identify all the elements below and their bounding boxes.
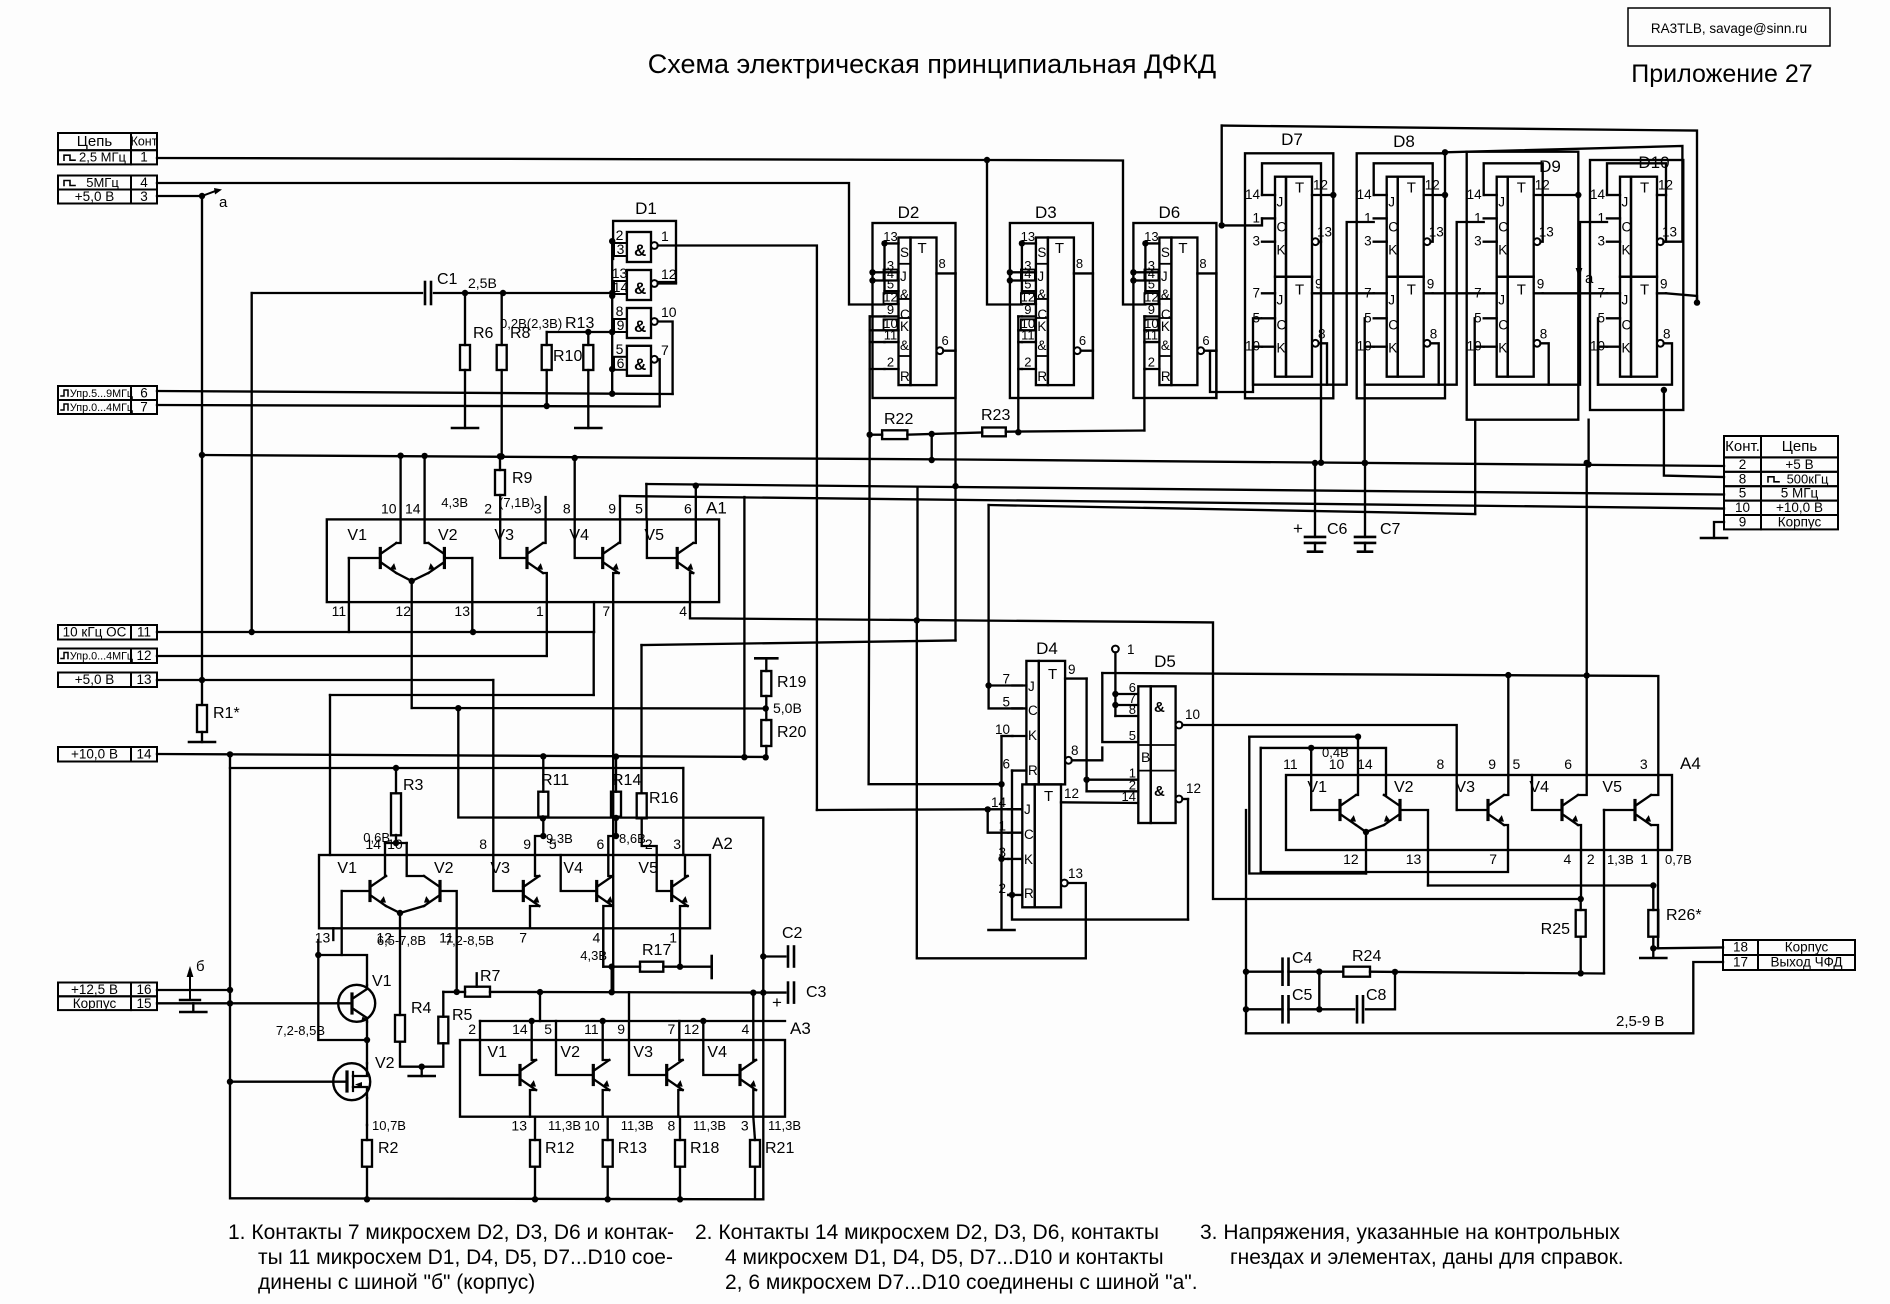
svg-text:13: 13: [136, 672, 151, 687]
wire D5 out12 stub: [1182, 798, 1188, 800]
node D1 pin2: [609, 238, 615, 244]
wire D6 K stub: [1144, 368, 1145, 370]
svg-text:C: C: [1498, 318, 1508, 333]
wire R6 top: [464, 293, 466, 345]
IC D9 inner loop out13-J14: [1484, 163, 1543, 241]
IC D2 cell divider: [899, 355, 911, 357]
IC D6 pin 10: [1145, 329, 1159, 331]
svg-text:18: 18: [1733, 940, 1748, 955]
svg-text:D7: D7: [1281, 130, 1303, 149]
wire A1 pin12 down: [411, 581, 413, 708]
node D5 p6: [1112, 691, 1118, 697]
node конт15 x230: [227, 1000, 233, 1006]
wire конт15: [157, 1003, 193, 1010]
resistor R13: [603, 1140, 613, 1167]
svg-text:Приложение 27: Приложение 27: [1631, 60, 1812, 88]
wire R20 bottom: [765, 746, 767, 757]
node A4 emitters: [1363, 829, 1369, 835]
wire 5МГц branch x917: [916, 487, 918, 620]
wire R25 bottom: [1580, 937, 1582, 974]
svg-text:4: 4: [679, 603, 687, 619]
IC D9 upper pin 1: [1484, 217, 1497, 219]
node rail R11: [540, 753, 546, 759]
node D6 top corner: [1219, 222, 1225, 228]
svg-text:Корпус: Корпус: [1785, 940, 1829, 955]
wire R11 bottom: [535, 817, 543, 855]
node C7 on bus: [1362, 460, 1368, 466]
wire +5 drop to A4 pin6: [1586, 463, 1588, 775]
transistor A2.V1: [368, 882, 371, 901]
svg-text:A2: A2: [712, 834, 733, 853]
connector rows 6/7: [58, 386, 157, 400]
wire 5,0В line: [412, 707, 766, 710]
node wrapA pin10: [1355, 734, 1361, 740]
IC D10 lower pin strip: [1620, 277, 1631, 377]
wire C5 left: [1246, 1008, 1283, 1010]
wire A2.V5 collector: [685, 855, 688, 876]
wire A3.V2 collector: [603, 1040, 610, 1060]
svg-text:6: 6: [1564, 756, 1572, 772]
svg-text:5: 5: [1129, 728, 1136, 743]
IC D5 pin1 terminal: [1112, 646, 1119, 653]
wire A4.V4 emitter: [1578, 825, 1581, 850]
node R8 top: [500, 290, 506, 296]
wire D4 feed bus: [989, 505, 1476, 514]
wire D10 out9 to top bus: [1666, 293, 1697, 302]
wire D2 out8 drop: [954, 273, 956, 640]
wire A4 wrapB: [1261, 748, 1386, 775]
IC D8 lower T box: [1398, 277, 1424, 377]
svg-text:R26*: R26*: [1666, 907, 1702, 924]
node конт6/D1 bus: [609, 391, 615, 397]
node x917 on pin4 line: [914, 617, 920, 623]
svg-text:K: K: [1277, 341, 1286, 356]
IC D3 cell divider: [1036, 317, 1048, 319]
svg-text:13: 13: [315, 929, 331, 945]
node R9 on +5V: [497, 453, 503, 459]
svg-text:2: 2: [484, 500, 492, 516]
node R11 bottom: [540, 815, 546, 821]
svg-text:J: J: [1388, 293, 1395, 308]
node R17 pin1: [677, 964, 683, 970]
IC D6 pin 13: [1145, 242, 1159, 244]
transistor A3.V3: [665, 1066, 668, 1085]
svg-text:10: 10: [1735, 500, 1750, 515]
svg-text:C: C: [1024, 827, 1034, 842]
svg-text:12: 12: [395, 603, 411, 619]
IC D9 upper pin 3: [1484, 241, 1497, 243]
svg-text:9: 9: [1148, 302, 1155, 317]
svg-text:A3: A3: [790, 1019, 811, 1038]
svg-text:R22: R22: [884, 411, 913, 428]
svg-text:K: K: [1498, 341, 1507, 356]
transistor A2.V3: [522, 882, 525, 901]
wire C4 left: [1246, 971, 1283, 973]
svg-text:D4: D4: [1036, 639, 1058, 658]
gate D1.1 output 1: [651, 242, 658, 249]
IC D4 lower pin strip: [1022, 784, 1034, 907]
node D2out8 on 5МГц bus: [952, 483, 958, 489]
svg-text:6: 6: [1002, 757, 1010, 772]
IC D2 pin 12: [885, 303, 899, 305]
svg-text:6: 6: [617, 355, 625, 371]
IC D9 outer box: [1467, 152, 1579, 420]
wire D2 K bracket: [869, 316, 871, 434]
node x318 955: [315, 952, 321, 958]
IC D6 pin 11: [1145, 341, 1159, 343]
svg-text:14: 14: [136, 747, 152, 762]
IC D6 pin 12: [1145, 303, 1159, 305]
svg-text:7: 7: [140, 400, 148, 415]
IC D4 lower pin 1: [1008, 832, 1022, 834]
ground конт15: [180, 1011, 206, 1014]
wire A1 emitter node: [396, 573, 428, 581]
node R22R23 on bus: [929, 457, 935, 463]
wire D6 K stub: [1144, 329, 1145, 331]
IC D7 lower pin 7: [1262, 292, 1275, 294]
svg-text:C: C: [1498, 220, 1508, 235]
svg-text:7: 7: [1489, 851, 1497, 867]
wire R3 bottom: [395, 835, 397, 843]
svg-text:R10: R10: [553, 348, 582, 365]
svg-text:RA3TLB, savage@sinn.ru: RA3TLB, savage@sinn.ru: [1651, 21, 1807, 36]
wire C6 stem: [1314, 463, 1316, 537]
transistor A3.V2: [592, 1066, 595, 1085]
ground R13: [575, 427, 601, 430]
svg-text:3: 3: [741, 1118, 749, 1134]
wire D10 to конт8 500кГц: [1664, 390, 1724, 477]
svg-text:T: T: [1178, 240, 1187, 257]
wire D4 K bracket v: [1002, 736, 1009, 859]
node D5 p7: [1112, 702, 1118, 708]
svg-text:3: 3: [1597, 234, 1605, 249]
wire R22-R23 line: [870, 434, 882, 436]
IC D6 pin 9: [1145, 315, 1159, 317]
IC D7 upper pin strip: [1275, 177, 1286, 277]
wire 885 line: [1428, 884, 1653, 886]
IC D5 out 12: [1176, 796, 1183, 803]
svg-text:+12,5 В: +12,5 В: [71, 982, 118, 997]
svg-text:6,5-7,8В: 6,5-7,8В: [377, 933, 426, 948]
transistor A1.V2: [443, 549, 446, 568]
transistor A4.V4: [1560, 801, 1563, 820]
wire C6 tail: [1314, 543, 1316, 552]
wire D4 feed left vertical: [989, 505, 1022, 708]
IC D3 J bracket stubs: [1010, 271, 1022, 273]
svg-text:Корпус: Корпус: [73, 996, 117, 1011]
node D2 pin13: [881, 240, 887, 246]
IC D5 pin box column: [1138, 686, 1150, 823]
transistor A2.V4: [595, 882, 598, 901]
node C4-R24: [1316, 969, 1322, 975]
svg-text:Цепь: Цепь: [1782, 438, 1818, 455]
wire D9 drop to bus: [1587, 420, 1589, 465]
svg-text:C: C: [1028, 703, 1038, 718]
wire +5V bus: [202, 455, 1724, 466]
wire A3 pin14 up: [531, 1021, 533, 1040]
node D2 J4: [869, 277, 875, 283]
wire R25 top lead: [1580, 899, 1582, 910]
svg-text:V1: V1: [347, 527, 367, 544]
wire A4 wrapB left: [1261, 748, 1508, 872]
wire конт7 Упр0-4МГц line: [157, 405, 660, 407]
node R7 right3: [609, 989, 615, 995]
svg-text:K: K: [900, 319, 909, 334]
svg-text:T: T: [1517, 282, 1526, 299]
svg-text:10 кГц ОС: 10 кГц ОС: [63, 625, 127, 640]
resistor R20: [761, 720, 771, 746]
svg-text:4: 4: [1564, 851, 1572, 867]
connector rows 16/15: [58, 983, 157, 997]
svg-text:B: B: [1141, 749, 1150, 765]
resistor R24: [1343, 967, 1370, 977]
wire A4 pin10 up: [1357, 737, 1359, 775]
svg-text:14: 14: [1245, 187, 1261, 202]
svg-text:R: R: [1024, 886, 1034, 901]
resistor R22: [882, 430, 907, 439]
capacitor C6: [1305, 536, 1325, 539]
node D7 drop: [1318, 460, 1324, 466]
node D1 left bus cross: [609, 290, 615, 296]
wire C5 right: [1289, 1008, 1355, 1010]
wire A3 pin12 up: [702, 1021, 704, 1040]
wire pin12 to R4: [399, 928, 401, 1015]
svg-text:2, 6 микросхем D7...D10 соедин: 2, 6 микросхем D7...D10 соединены с шино…: [725, 1271, 1198, 1294]
resistor R17: [640, 962, 663, 972]
svg-text:T: T: [1295, 180, 1304, 197]
svg-text:T: T: [1407, 180, 1416, 197]
svg-text:5 МГц: 5 МГц: [1781, 486, 1819, 501]
IC D10 upper pin 3: [1607, 241, 1620, 243]
wire D5 top line to A4: [1102, 673, 1658, 775]
svg-text:10: 10: [381, 500, 397, 516]
resistor R18: [675, 1140, 685, 1167]
transistor A1.V5: [676, 549, 679, 568]
wire x230 left loop: [230, 754, 763, 1199]
wire R16 feed vertical: [640, 645, 642, 793]
wire конт9 корпус: [1714, 522, 1724, 538]
svg-text:14: 14: [1357, 187, 1373, 202]
svg-text:V3: V3: [633, 1044, 653, 1061]
node D6 J3: [1130, 269, 1136, 275]
IC D10 upper pin 14: [1607, 194, 1620, 196]
svg-text:14: 14: [1467, 187, 1483, 202]
svg-text:K: K: [1388, 341, 1397, 356]
wire C2 left: [763, 955, 785, 957]
gate D1.2 body: [627, 270, 651, 300]
transistor A3.V1: [518, 1066, 521, 1085]
IC D4 upper pin strip: [1026, 661, 1038, 785]
wire A4.V5 emitter: [1651, 825, 1658, 850]
wire D7 drop to bus: [1320, 242, 1322, 463]
svg-text:R19: R19: [777, 674, 806, 691]
node V1V2 link: [364, 1037, 370, 1043]
wire R16 bottom: [642, 818, 657, 855]
wire A4 wrapA: [1249, 736, 1358, 738]
wire D3 K stub: [1018, 368, 1022, 370]
node D1 pin9: [609, 329, 615, 335]
IC D7 lower pin strip: [1275, 277, 1286, 377]
resistor R16: [637, 793, 647, 818]
wire A3 pin11 up: [602, 1021, 604, 1040]
IC D7 inner loop out13-J14: [1262, 163, 1321, 241]
wire R3 to pins: [385, 842, 407, 844]
svg-text:9: 9: [1537, 277, 1545, 292]
wire 632 to A1 bottom: [593, 602, 595, 632]
wire A3.V3 emitter: [678, 1090, 682, 1117]
node C3 tap: [760, 989, 766, 995]
wire R24 right: [1370, 972, 1604, 974]
wire корпус 18 line: [1653, 946, 1723, 949]
IC D4 lower out 12: [1061, 801, 1138, 804]
IC D7 upper pin 3: [1262, 241, 1275, 243]
svg-text:8: 8: [563, 500, 571, 516]
IC D7 lower out 8: [1312, 340, 1319, 347]
svg-text:J: J: [1498, 195, 1505, 210]
node D3 pin13: [1019, 240, 1025, 246]
svg-text:2: 2: [1587, 851, 1595, 867]
wire R12 bottom: [534, 1167, 536, 1200]
wire R13 bottom: [587, 370, 589, 428]
wire +10В bus: [620, 496, 1724, 509]
svg-text:17: 17: [1733, 955, 1748, 970]
node top bus to D10 out9: [1694, 299, 1700, 305]
wire R1 bottom: [201, 732, 203, 742]
table pins header: [58, 133, 157, 150]
svg-text:7,2-8,5В: 7,2-8,5В: [445, 933, 494, 948]
svg-text:K: K: [1388, 243, 1397, 258]
svg-text:V3: V3: [1455, 779, 1475, 796]
IC D6 cell divider: [1159, 263, 1171, 265]
svg-text:C: C: [1622, 220, 1632, 235]
IC D9 lower K wrap: [1475, 343, 1549, 384]
wire V1 collector chain: [317, 940, 319, 955]
wire A4.V3 base: [1457, 809, 1488, 811]
svg-text:5МГц: 5МГц: [86, 175, 119, 190]
node A2 emitters: [397, 910, 403, 916]
wire A1.V2 base to pin13: [471, 558, 473, 632]
svg-text:11: 11: [332, 603, 347, 619]
svg-text:8: 8: [479, 836, 487, 852]
svg-text:V2: V2: [1394, 779, 1414, 796]
svg-text:4 микросхем D1, D4, D5, D7...D: 4 микросхем D1, D4, D5, D7...D10 и конта…: [725, 1246, 1164, 1269]
IC D2 pin 5: [885, 290, 899, 292]
IC D3 cell divider: [1036, 355, 1048, 357]
wire D8 C5 bracket: [1364, 318, 1366, 384]
node D4 bracket D2: [998, 781, 1004, 787]
svg-text:10,7В: 10,7В: [372, 1118, 406, 1133]
wire A1.V1 base to pin11: [348, 558, 350, 632]
IC D9 lower pin 7: [1484, 292, 1497, 294]
svg-text:D3: D3: [1035, 203, 1057, 222]
wire branch to D3 clock: [987, 160, 1022, 305]
wire D4 J7 stub: [989, 684, 1022, 686]
svg-text:4: 4: [742, 1021, 750, 1037]
wire 10кГц ОС line: [157, 631, 594, 633]
IC D2 pin 13: [885, 242, 899, 244]
svg-text:9: 9: [1024, 302, 1031, 317]
IC D3 T box: [1048, 238, 1074, 386]
resistor R21: [750, 1140, 760, 1167]
IC D2 cell divider: [899, 263, 911, 265]
wire R11 top: [542, 756, 544, 791]
wire R18 bottom: [679, 1167, 681, 1200]
wire top bus outer: [1222, 126, 1697, 303]
svg-text:10: 10: [1185, 707, 1200, 722]
IC D7 upper pin 1: [1262, 217, 1275, 219]
IC D6 cell divider: [1159, 298, 1171, 300]
svg-text:&: &: [1161, 287, 1170, 302]
wire D5 pin8 stub: [1115, 715, 1138, 717]
IC D2 output 8: [937, 272, 956, 274]
wire x318 drop: [318, 955, 367, 1040]
wire A2.V1 collector: [385, 855, 386, 876]
IC D6 output 6: [1197, 347, 1204, 354]
node D4 J7 feed: [985, 682, 991, 688]
svg-text:11: 11: [1145, 328, 1159, 343]
svg-text:3: 3: [1640, 756, 1648, 772]
resistor R3: [391, 793, 401, 835]
svg-text:C3: C3: [806, 984, 827, 1001]
svg-text:K: K: [1028, 728, 1037, 743]
wire A4.V1 base: [1311, 809, 1340, 811]
transistor A4.V5: [1633, 801, 1636, 820]
IC D7 upper pin 14: [1262, 194, 1275, 196]
svg-text:13: 13: [1429, 225, 1444, 240]
wire A2.V3 collector: [535, 855, 539, 876]
wire R22-R23 mid: [907, 433, 982, 435]
svg-text:C6: C6: [1327, 521, 1348, 538]
wire 817 line: [458, 708, 763, 818]
ground D4: [989, 929, 1015, 932]
node R25 bottom: [1578, 970, 1584, 976]
svg-text:A1: A1: [706, 498, 727, 517]
svg-text:14: 14: [1590, 187, 1606, 202]
svg-text:D1: D1: [635, 199, 657, 218]
wire R26 bottom: [1652, 937, 1654, 949]
svg-text:13: 13: [1317, 225, 1332, 240]
wire A4.V1 collector: [1356, 775, 1358, 795]
svg-text:K: K: [1024, 852, 1033, 867]
node 809 branch: [985, 806, 991, 812]
svg-text:12: 12: [136, 648, 151, 663]
wire D3 K stub: [1018, 341, 1022, 343]
IC D3 pin 9: [1022, 315, 1036, 317]
gate D1.2 pin 14 box: [614, 281, 627, 294]
svg-text:R: R: [1161, 369, 1171, 384]
node R6 top: [462, 290, 468, 296]
svg-text:7,2-8,5В: 7,2-8,5В: [276, 1023, 325, 1038]
svg-text:14: 14: [991, 795, 1007, 810]
IC D6 S-5 bracket: [1144, 243, 1146, 291]
IC D7 upper out 13: [1312, 238, 1319, 245]
wire A3.V3 collector: [679, 1040, 682, 1060]
array A4 box: [1286, 775, 1672, 850]
wire D4 K bracket: [1002, 735, 1013, 737]
svg-text:2: 2: [1739, 457, 1747, 472]
wire A1.V1 collector: [396, 456, 400, 543]
svg-text:2,5-9 В: 2,5-9 В: [1616, 1013, 1664, 1030]
IC D9 lower out 9: [1534, 292, 1543, 294]
wire D6out6 chain: [1210, 318, 1261, 392]
wire конт16: [157, 989, 230, 991]
wire A3 pin5 up: [555, 1021, 557, 1040]
svg-text:6: 6: [942, 333, 949, 348]
gate D1.1 body: [627, 232, 651, 262]
wire A3.V3 base: [629, 1040, 667, 1075]
wire конт1 2,5МГц bus: [157, 158, 1145, 305]
svg-text:6: 6: [684, 500, 692, 516]
